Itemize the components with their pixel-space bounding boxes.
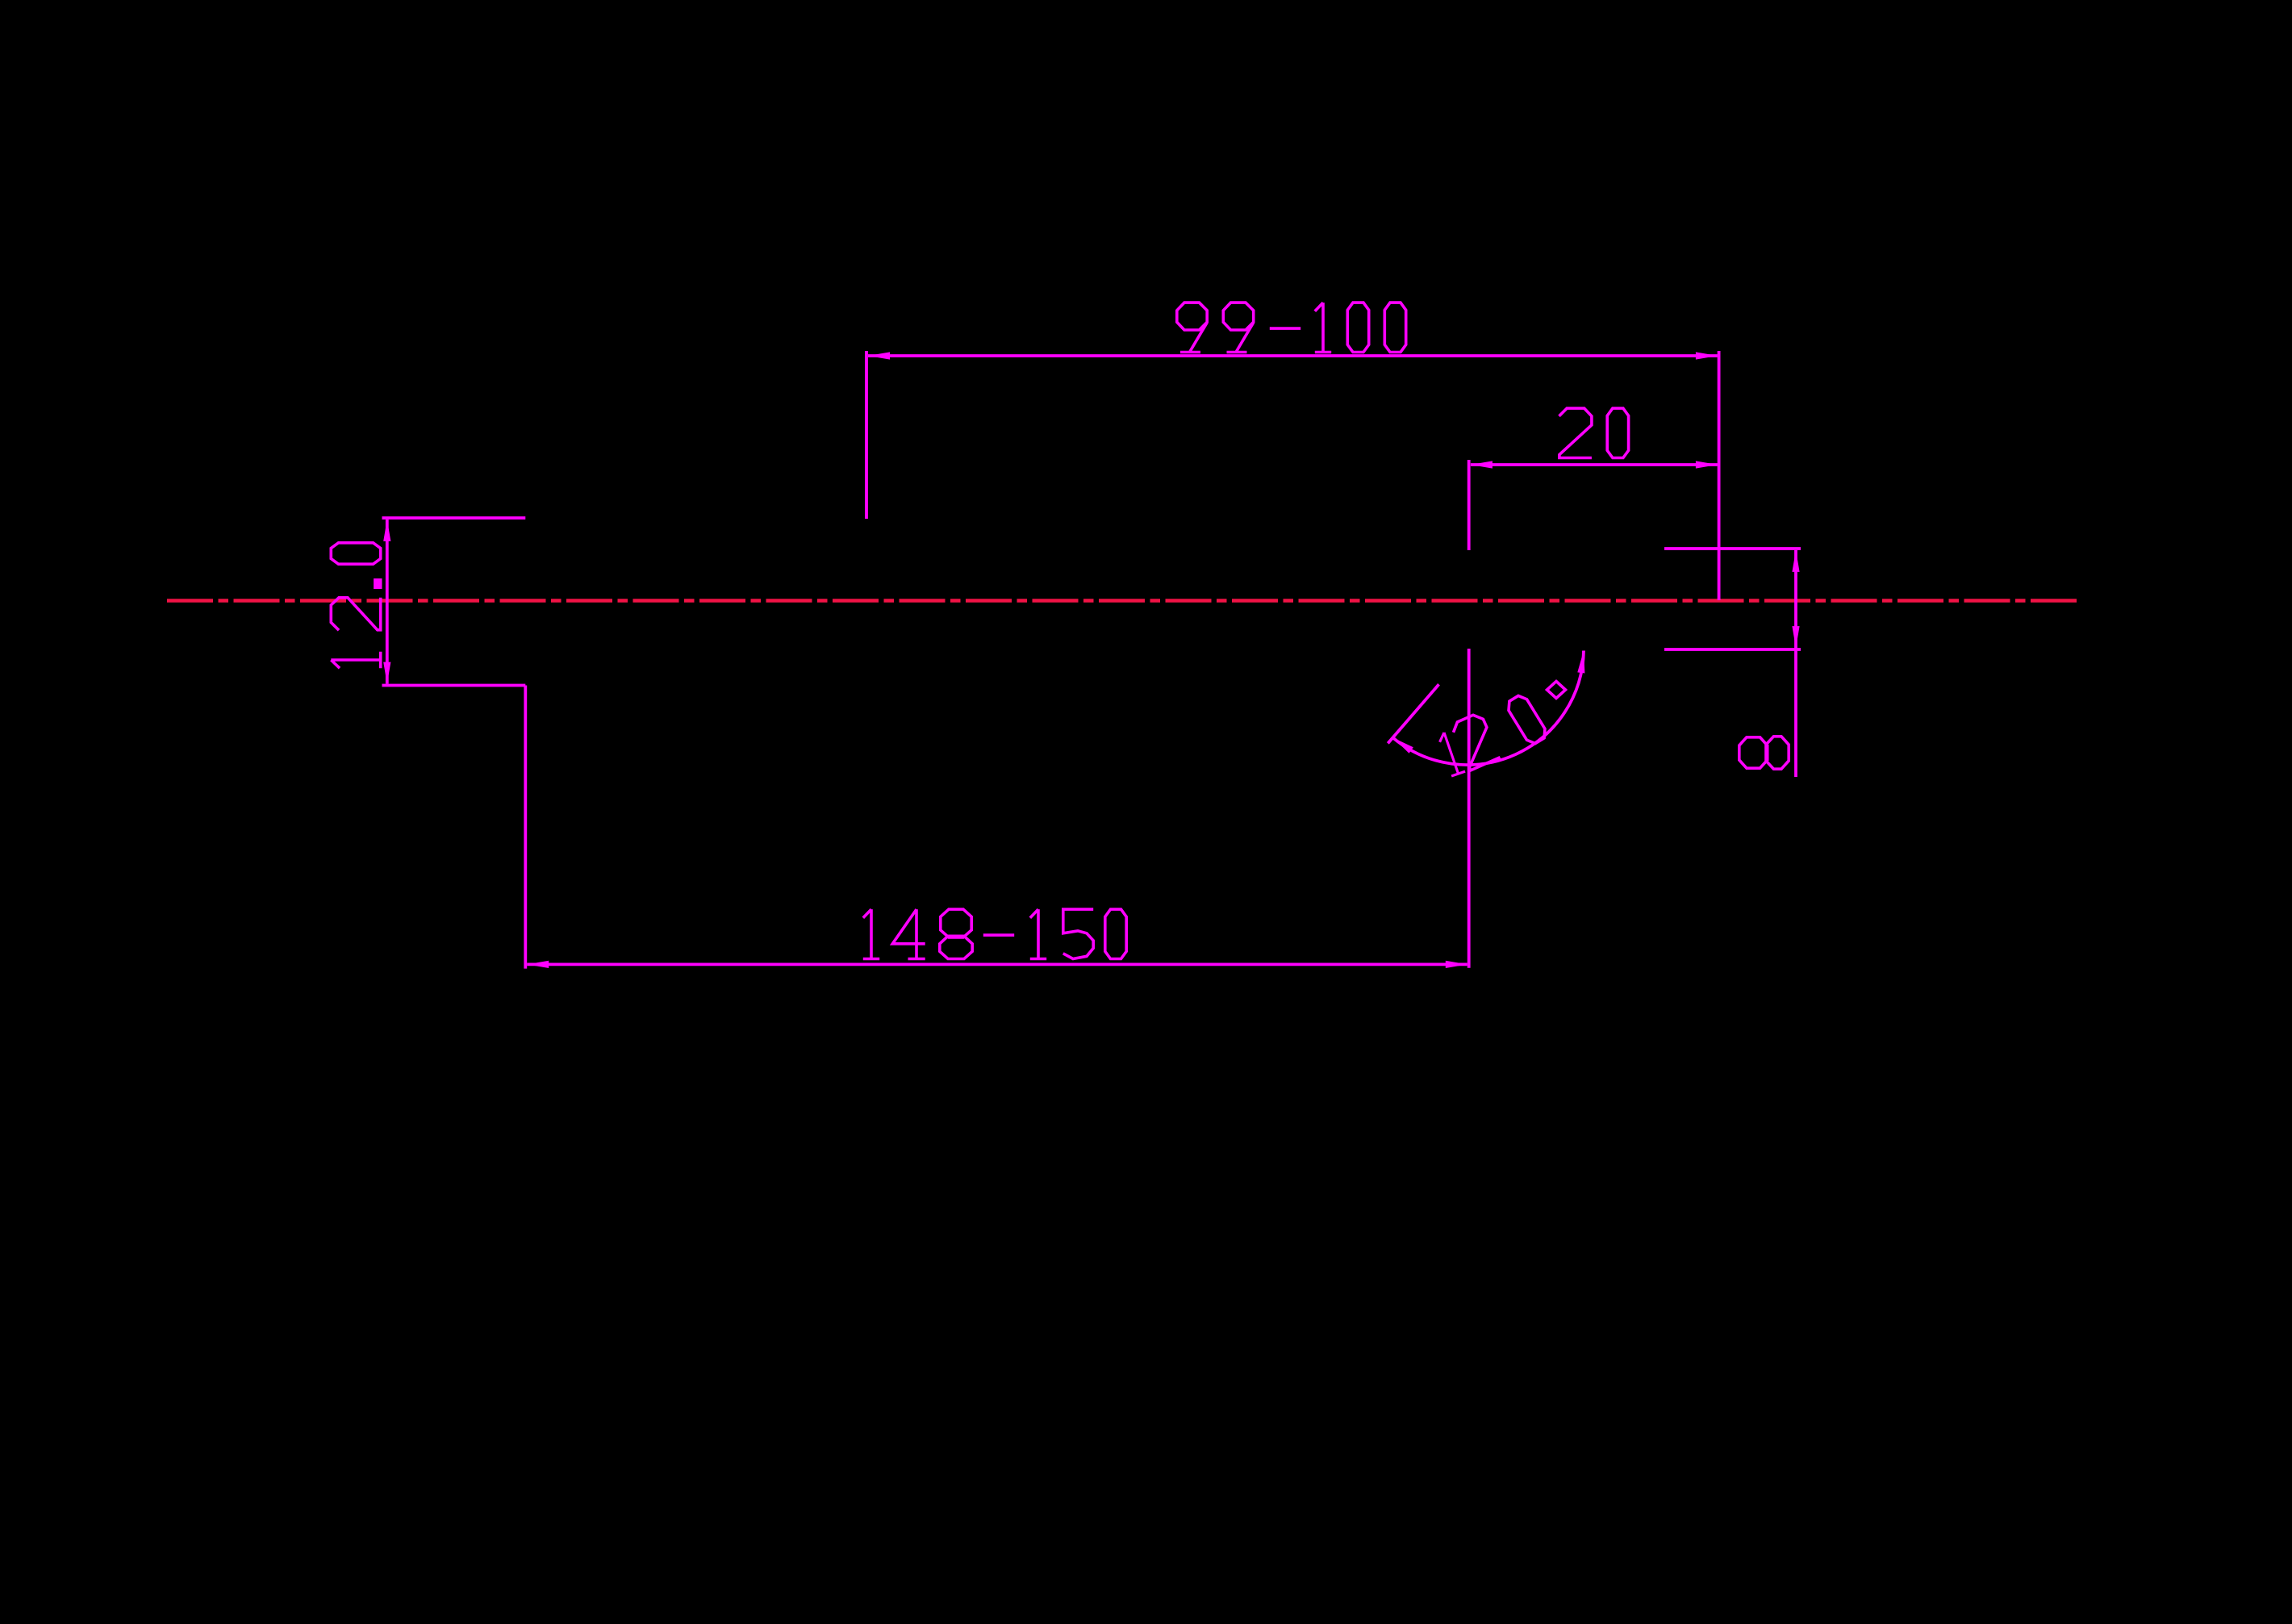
- dim 8: top arrowhead: [1792, 550, 1799, 572]
- dim 120deg: right (upper) arrowhead: [1577, 651, 1584, 674]
- dim 12.0: dimension line: [386, 520, 389, 684]
- dim 99-100: left extension line: [865, 351, 868, 519]
- wire: right step bottom edge: [1664, 648, 1801, 651]
- dim 120deg: slanted extension line: [1388, 684, 1438, 743]
- dim text 12.0 (rotated): [331, 543, 380, 668]
- dim text 8 (rotated): [1739, 737, 1789, 769]
- dim 99-100: right arrowhead: [1696, 352, 1718, 359]
- dim 99-100: right extension line: [1718, 351, 1721, 600]
- dim 99-100: left arrowhead: [868, 352, 890, 359]
- dim text 120deg: degree symbol: [1547, 682, 1566, 699]
- dim 120deg: dimension arc: [1392, 651, 1584, 766]
- dim text 148-150: [863, 909, 1126, 958]
- dim 148-150: dimension line: [527, 963, 1467, 966]
- wire: groove vertical edge: [1467, 649, 1471, 968]
- dim 8: bottom arrowhead: [1792, 626, 1799, 648]
- dim 148-150: left arrowhead: [527, 961, 549, 968]
- red center line (dash-dot axis): [167, 599, 2079, 602]
- dim text 99-100: [1177, 303, 1406, 352]
- wire: right step top edge: [1664, 547, 1801, 550]
- wire: top-left horizontal edge: [382, 516, 526, 520]
- dim 20: dimension line: [1471, 463, 1718, 466]
- dim 20: right arrowhead: [1696, 461, 1718, 468]
- dim 99-100: dimension line: [868, 354, 1718, 357]
- dim 20: left arrowhead: [1471, 461, 1493, 468]
- dim 148-150: right arrowhead: [1446, 961, 1467, 968]
- dim 12.0: top arrowhead: [383, 520, 390, 541]
- dim 120deg: left (lower) arrowhead: [1392, 737, 1413, 753]
- dim text 120deg: digit 0: [1505, 693, 1549, 746]
- dim 12.0: bottom arrowhead: [383, 662, 390, 684]
- dim 20: left extension line: [1467, 460, 1471, 550]
- dim 8: dimension line: [1794, 550, 1797, 777]
- dim text 120deg: digit 2: [1451, 712, 1501, 771]
- dim text 120deg: digit 1: [1438, 730, 1466, 776]
- wire: left vertical edge: [524, 686, 527, 969]
- dim text 20: [1559, 408, 1629, 457]
- wire: bottom-left horizontal edge: [382, 684, 526, 687]
